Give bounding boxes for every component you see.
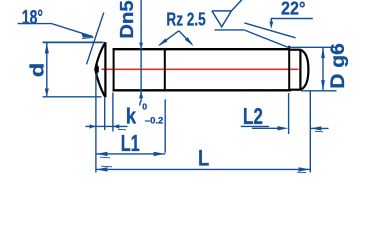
18 deg construction line xyxy=(87,13,104,65)
crown spherical silhouette xyxy=(300,50,308,90)
dim L2 shelf under label xyxy=(241,125,269,127)
18 deg leader xyxy=(18,24,93,37)
22 deg arrowhead xyxy=(269,21,273,28)
Rz leader right arrow xyxy=(179,31,192,45)
svg-text:18°: 18° xyxy=(22,7,43,29)
cone apex tick xyxy=(96,64,98,73)
svg-text:L2: L2 xyxy=(243,103,263,129)
svg-text:L1: L1 xyxy=(121,130,140,156)
k arrow right (outside left) xyxy=(90,124,96,128)
k sketch tail xyxy=(118,128,126,131)
pin body bottom edge xyxy=(113,89,291,91)
svg-text:d: d xyxy=(27,63,49,78)
18 deg leader arrowhead xyxy=(82,33,95,37)
svg-text:L: L xyxy=(198,145,209,170)
Dn5 leader line xyxy=(140,0,141,105)
svg-text:0: 0 xyxy=(142,102,147,112)
L2 sketch tail xyxy=(315,130,323,133)
L1 arrow left xyxy=(96,152,108,156)
svg-text:22°: 22° xyxy=(281,0,305,19)
d arrow up xyxy=(45,43,49,54)
dim d top extension xyxy=(43,41,104,43)
L2 right tail xyxy=(311,127,329,129)
dim L line xyxy=(96,168,310,170)
extension from mid line V6 xyxy=(164,99,166,153)
d arrow down xyxy=(45,89,49,97)
L2 arrow right tip at V4 xyxy=(278,126,289,130)
pin body top edge xyxy=(113,48,290,50)
body left edge line B xyxy=(113,48,115,91)
svg-text:–0.2: –0.2 xyxy=(145,115,164,126)
D g6 bottom extension xyxy=(301,90,337,92)
svg-text:k: k xyxy=(126,104,137,129)
extension from apex V1 xyxy=(95,74,97,173)
right chamfer line C xyxy=(288,46,290,92)
cone apex point xyxy=(94,66,99,73)
left cone silhouette xyxy=(95,42,105,97)
svg-text:D g6: D g6 xyxy=(328,43,349,89)
centerline (red axis) xyxy=(102,68,299,70)
L sketch tails xyxy=(101,166,306,172)
extension from cone base V2 xyxy=(104,98,106,130)
D g6 dim line xyxy=(322,48,324,91)
L arrow right xyxy=(299,167,311,171)
dim L1 line xyxy=(96,153,165,155)
extension from crown right V5 xyxy=(309,92,311,173)
roughness symbol base line xyxy=(215,30,289,48)
L arrow left xyxy=(96,167,108,171)
mid section line xyxy=(164,48,166,91)
D g6 arrow up xyxy=(321,47,325,58)
L2 left arrow line xyxy=(252,127,284,129)
Rz leader left arrow xyxy=(160,31,179,45)
22 deg leader xyxy=(271,19,313,27)
dim k line xyxy=(86,125,128,127)
k arrow left (outside right) xyxy=(113,124,119,128)
svg-text:Dn5: Dn5 xyxy=(116,0,137,39)
extension from line C V4 xyxy=(288,93,290,134)
crown chamfer line C2 xyxy=(299,49,301,90)
dim d bottom extension xyxy=(43,96,102,98)
svg-text:Rz 2.5: Rz 2.5 xyxy=(166,9,205,30)
crown bottom edge xyxy=(289,89,300,91)
crown top edge xyxy=(289,49,300,51)
extension from body left V3 xyxy=(112,93,114,132)
L2 arrow left tip at V5 xyxy=(311,126,322,130)
D g6 arrow down xyxy=(321,80,325,91)
D g6 top extension xyxy=(290,46,337,48)
Dn5 arrow down at top edge xyxy=(139,43,143,49)
dim d line xyxy=(46,43,48,96)
left cone base line A xyxy=(104,42,106,97)
22 deg construction line xyxy=(244,23,295,38)
Dn5 arrow up at bottom edge xyxy=(139,91,143,98)
L1 sketch tail xyxy=(100,156,110,159)
roughness symbol xyxy=(212,0,243,27)
L1 arrow right xyxy=(154,152,166,156)
